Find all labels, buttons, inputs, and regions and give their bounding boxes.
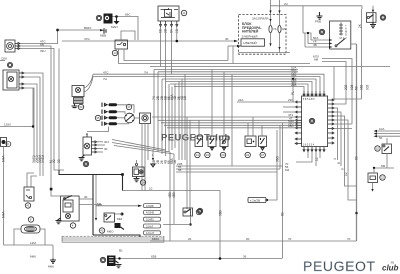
svg-text:962: 962 <box>360 84 364 90</box>
wire M4A left <box>3 147 5 246</box>
relay lamp comp 18 <box>133 160 145 177</box>
wire 47G long run to fuse box <box>62 40 234 42</box>
svg-text:926: 926 <box>350 84 354 90</box>
svg-text:70: 70 <box>288 237 292 241</box>
ground M66 <box>50 259 56 264</box>
svg-text:1/34-Л: 1/34-Л <box>146 225 153 228</box>
wire v356.5 main feed down <box>356 44 358 70</box>
svg-text:10A: 10A <box>379 127 384 131</box>
svg-text:ЗАСОРИЛИ: ЗАСОРИЛИ <box>252 17 268 21</box>
wire L to v358 <box>345 172 357 186</box>
wire v220 36B <box>219 191 221 259</box>
svg-text:14: 14 <box>196 153 200 157</box>
svg-text:19: 19 <box>206 153 210 157</box>
wires comp37 right stubs <box>97 141 103 143</box>
svg-text:M5B: M5B <box>100 34 106 38</box>
svg-text:20: 20 <box>221 153 225 157</box>
svg-text:12: 12 <box>381 16 385 20</box>
resistor comp 22 <box>368 173 378 183</box>
wire 4TC from motor to node <box>20 30 58 44</box>
svg-text:20: 20 <box>188 237 192 241</box>
vertical bundle v158 <box>157 72 159 152</box>
wire fusebox bottom rail <box>239 52 290 54</box>
svg-text:30: 30 <box>104 147 108 151</box>
U30 left pins <box>295 101 301 145</box>
svg-text:43: 43 <box>246 153 250 157</box>
circle ref 40 <box>83 161 88 166</box>
circle ref 19 <box>205 152 210 157</box>
wire PL drop to U30 <box>292 79 294 102</box>
connector list box 5 <box>144 231 161 235</box>
relay11 pin3 <box>171 21 173 27</box>
svg-text:22A: 22A <box>238 98 243 102</box>
svg-text:7A: 7A <box>273 27 277 31</box>
wire drop x303 <box>302 6 304 33</box>
wire band h84 <box>170 84 308 91</box>
svg-text:36B: 36B <box>218 210 222 216</box>
relay 41a <box>24 187 34 201</box>
ground MAN under comp3 <box>116 17 118 22</box>
node junction B66X <box>56 29 59 32</box>
wire v59 down <box>58 49 60 171</box>
fuse strip group left <box>102 103 117 126</box>
wire 2K vertical <box>361 9 363 99</box>
wire band h63 <box>150 63 233 65</box>
wire v43 to comp41 <box>42 157 44 176</box>
wire relay11 pin4 to 47G <box>176 27 178 41</box>
vertical bundle v162 <box>161 79 163 154</box>
svg-text:903: 903 <box>366 84 370 90</box>
dot on v358 <box>355 212 358 215</box>
comp22 wires <box>373 168 375 173</box>
wire MRN 20 line <box>150 240 357 242</box>
U30 right pins <box>328 99 334 144</box>
svg-text:1B: 1B <box>183 96 187 100</box>
wire v54 down <box>54 62 64 170</box>
wire right edge arrows M <box>377 135 400 137</box>
wire arrow into connector left <box>228 45 241 47</box>
svg-text:15: 15 <box>376 147 380 151</box>
svg-text:M6O: M6O <box>107 230 114 234</box>
vertical bundle v165 <box>165 70 167 156</box>
junction on h79 <box>292 78 294 80</box>
svg-text:32: 32 <box>52 159 56 163</box>
svg-text:126V: 126V <box>4 123 11 127</box>
circle ref 22 <box>380 175 385 180</box>
circle ref 4 <box>70 223 75 228</box>
svg-text:63B: 63B <box>151 255 156 259</box>
circle ref 20 <box>220 152 225 157</box>
wire B66X to ground M5B <box>58 29 100 31</box>
relay 16 <box>183 208 193 216</box>
wire h245 12M <box>4 244 54 246</box>
ground comp34 <box>72 104 78 108</box>
svg-text:13: 13 <box>113 51 117 55</box>
wire h130 from comp37 top <box>87 127 109 132</box>
wire v94 arrow <box>95 175 97 218</box>
svg-text:28D: 28D <box>288 124 294 128</box>
svg-text:M4A: M4A <box>2 155 6 162</box>
circle ref 47b <box>260 152 265 157</box>
wire U30 right pin L routes <box>333 67 335 101</box>
diag jog wires <box>112 140 166 151</box>
wire +4 into switch <box>308 43 332 45</box>
svg-text:M6: M6 <box>40 42 44 46</box>
circle ref 43 <box>245 152 250 157</box>
svg-text:20: 20 <box>246 237 250 241</box>
gray main v358 50 <box>356 70 358 242</box>
connector list box 3 <box>144 217 161 221</box>
wire v53 170M <box>52 245 54 259</box>
svg-text:12: 12 <box>315 157 319 161</box>
wire switch output <box>351 43 357 45</box>
wire band h79 <box>162 79 316 91</box>
svg-text:47G: 47G <box>84 37 90 41</box>
ground PM5 <box>315 12 323 24</box>
svg-text:16: 16 <box>197 210 201 214</box>
ignition lock group 42 <box>104 213 124 234</box>
sensor S3 <box>220 136 228 150</box>
wire 2U top run <box>271 5 363 7</box>
dark feed junction <box>59 170 123 175</box>
svg-text:36G: 36G <box>275 155 279 162</box>
ignition coil 7 <box>100 256 115 267</box>
svg-text:17: 17 <box>127 105 131 109</box>
ground under U12 <box>370 22 376 27</box>
svg-text:.ru: .ru <box>390 261 394 265</box>
wire h224 <box>163 224 191 226</box>
vertical bundle v185 <box>184 74 186 160</box>
wire h166 21B <box>176 165 283 167</box>
svg-text:C8U: C8U <box>1 57 7 61</box>
wire 50A into switch <box>311 39 332 41</box>
wire 33U from motor <box>20 49 54 63</box>
svg-text:1/34Л5: 1/34Л5 <box>146 219 154 222</box>
svg-text:35: 35 <box>96 116 100 120</box>
headlamp unit 6 <box>3 62 24 90</box>
circle ref 15 <box>375 146 380 151</box>
U30 top pins <box>303 91 325 96</box>
wire arc comp34 to band <box>84 74 93 88</box>
fuse F1 <box>269 0 277 46</box>
box 2a2B <box>248 198 266 203</box>
svg-text:10: 10 <box>149 187 153 191</box>
svg-text:47: 47 <box>261 153 265 157</box>
svg-text:7H: 7H <box>103 77 107 81</box>
svg-text:к 2а/2В: к 2а/2В <box>250 199 260 203</box>
svg-text:23B: 23B <box>291 83 296 87</box>
circle ref 47 <box>197 208 202 213</box>
heater comp 15 <box>382 144 392 154</box>
comp45 feeds <box>186 117 188 209</box>
wire 4B into switch <box>305 46 332 48</box>
motor M2 washer pump <box>5 40 20 52</box>
wire h107 to U30 <box>283 106 296 108</box>
svg-text:НИТЕЛЕЙ: НИТЕЛЕЙ <box>242 30 259 34</box>
wire feeders for switch <box>303 33 311 40</box>
relay 13 <box>112 40 127 56</box>
svg-text:41: 41 <box>26 204 30 208</box>
svg-text:23: 23 <box>57 159 61 163</box>
comp 9 charge <box>1 138 11 147</box>
lamp check unit U12 <box>367 13 377 23</box>
wire band h66b <box>150 66 390 68</box>
circle ref 18 <box>140 180 145 185</box>
circle ref 12 <box>380 15 385 20</box>
wire rotary to lamp box <box>134 117 139 119</box>
wire h127.8 long to U30 <box>167 127 296 129</box>
wire h117 long to U30 <box>152 116 296 118</box>
svg-text:33U: 33U <box>40 49 46 53</box>
circle ref 10 <box>319 29 324 34</box>
vertical bundle v169 <box>168 84 170 152</box>
svg-text:1/303В: 1/303В <box>146 205 154 208</box>
ground coil <box>116 261 122 268</box>
wire 63B h258 <box>116 258 283 260</box>
lamp comp 37 <box>83 134 97 155</box>
svg-text:2U: 2U <box>284 2 288 6</box>
svg-text:1/БЕЛЫЙ: 1/БЕЛЫЙ <box>243 41 257 45</box>
relay11 pin4 <box>176 21 178 27</box>
ground comb switch <box>56 218 62 224</box>
fuel pump comp 8 <box>21 217 40 233</box>
wire 126V from left <box>0 126 33 128</box>
wire right edge arrows 10A <box>377 130 400 132</box>
rotary light switch <box>125 113 135 123</box>
svg-text:40: 40 <box>84 162 88 166</box>
instrument lamp box <box>140 113 151 124</box>
comp15 wires <box>386 138 388 144</box>
circle ref 14 <box>195 152 200 157</box>
wires fuse strip to rotary switch <box>117 105 134 113</box>
vertical bundle v172 <box>171 87 173 151</box>
svg-text:30: 30 <box>84 195 88 199</box>
wire below U30 bottom pin runs <box>307 152 309 158</box>
wire right edge arrows 50 <box>377 133 400 135</box>
ground comp18 <box>134 177 140 182</box>
vertical bundle v179 <box>178 82 180 161</box>
junction square on v51 <box>50 188 53 191</box>
svg-text:30J: 30J <box>104 140 109 144</box>
svg-text:18: 18 <box>141 181 145 185</box>
wire headlamp pin1 <box>24 73 43 157</box>
wire band h86.5 <box>174 87 304 92</box>
svg-text:6: 6 <box>337 162 341 164</box>
svg-text:M4A: M4A <box>2 211 6 218</box>
svg-text:5 B 5 A B 5: 5 B 5 A B 5 <box>303 98 315 101</box>
connector list box 1 <box>144 204 161 208</box>
wire riser into connector <box>227 46 229 61</box>
fuse box connector 1-white <box>241 39 265 46</box>
wire h120.3 long to U30 <box>158 119 296 121</box>
svg-text:58: 58 <box>178 168 182 172</box>
circle ref 17 <box>126 104 131 109</box>
ignition switch U10 <box>330 21 351 49</box>
svg-text:70: 70 <box>347 237 351 241</box>
wire h122.8 long to U30 <box>161 122 296 124</box>
U30 bottom pins <box>303 147 325 152</box>
svg-text:PL: PL <box>291 91 295 95</box>
relay11 pin2 <box>165 21 167 27</box>
wire band h81.5 <box>166 82 312 92</box>
connector list box 4 <box>144 224 161 228</box>
svg-text:1/34-2Т: 1/34-2Т <box>146 232 155 235</box>
dark wire into strip <box>93 235 140 237</box>
svg-text:MRN: MRN <box>152 237 159 241</box>
svg-text:40: 40 <box>225 37 229 41</box>
ECU U30 <box>302 96 328 147</box>
wire relay11 pin3 down <box>171 27 173 74</box>
svg-text:PEUGEOT: PEUGEOT <box>303 258 376 274</box>
hatched connector strip <box>62 236 164 242</box>
relay U11 main relay <box>158 6 187 21</box>
svg-text:M66: M66 <box>30 255 36 259</box>
circle ref 41 <box>25 203 30 208</box>
wire v282 60 down <box>282 123 284 258</box>
wire band h61.5 M8 <box>322 62 346 100</box>
sensor S4 <box>245 136 256 147</box>
wire band h60 <box>150 60 228 62</box>
svg-text:MAN: MAN <box>111 25 118 29</box>
svg-text:club: club <box>382 264 399 273</box>
dimmer comp 34 <box>72 86 84 110</box>
svg-text:30: 30 <box>310 119 314 123</box>
wire M6B output <box>79 204 96 206</box>
svg-text:M4: M4 <box>285 168 289 172</box>
svg-text:22: 22 <box>381 176 385 180</box>
svg-text:36: 36 <box>243 255 247 259</box>
relay11 pin1 <box>160 21 162 27</box>
wire v277 to 2a2B <box>268 130 277 200</box>
wire band h66 <box>118 63 120 65</box>
svg-text:9: 9 <box>341 168 345 170</box>
wire v51 down <box>51 60 60 196</box>
svg-text:50: 50 <box>354 156 358 160</box>
label C8U left edge <box>0 60 5 62</box>
svg-text:4B: 4B <box>313 43 317 47</box>
sensor feed wires up <box>198 120 200 136</box>
svg-text:M6: M6 <box>381 164 385 168</box>
svg-text:34: 34 <box>79 105 83 109</box>
wire 2U into U12 <box>362 6 373 13</box>
svg-text:B1: B1 <box>119 249 123 253</box>
wires comb switch right <box>79 198 93 200</box>
svg-text:M 1 2: M 1 2 <box>340 36 347 40</box>
wire band h69 to IC <box>154 69 298 71</box>
vertical bundle v175 <box>174 84 176 148</box>
relay16 drop <box>190 216 192 225</box>
svg-text:PM5: PM5 <box>315 20 322 24</box>
wire relay13 down pins <box>119 49 151 64</box>
wire h172 58 <box>176 171 277 173</box>
svg-text:202: 202 <box>344 84 348 90</box>
vertical bundle v154 <box>153 70 155 151</box>
wire h112 to U30 <box>283 111 296 113</box>
fuse F2 <box>278 0 286 53</box>
wire band h71 <box>158 71 298 73</box>
svg-text:B66X: B66X <box>84 26 91 30</box>
svg-text:12M: 12M <box>30 241 36 245</box>
wire headlamp pin3 <box>24 84 37 157</box>
wire band h58.5 M70 <box>322 59 352 100</box>
pump wires <box>14 229 21 245</box>
svg-text:50: 50 <box>354 86 358 90</box>
svg-text:M6: M6 <box>97 202 101 206</box>
wire headlamp pin2 <box>24 77 40 157</box>
wire left bend to relay41 <box>27 173 34 187</box>
wire relay11 pin2 down <box>165 27 167 70</box>
svg-text:M66: M66 <box>48 265 54 269</box>
svg-text:42: 42 <box>100 229 104 233</box>
connector list box 2 <box>144 210 161 214</box>
svg-text:45B: 45B <box>172 192 176 198</box>
wire v280 <box>279 125 281 169</box>
wire h169 55 <box>176 168 280 170</box>
svg-text:3A: 3A <box>282 27 286 31</box>
wire headlamp pin4 <box>24 88 34 157</box>
svg-text:MM: MM <box>117 217 122 221</box>
svg-text:60: 60 <box>281 212 285 216</box>
sensor S5 <box>259 136 267 150</box>
vertical bundle v182 <box>181 79 183 160</box>
svg-text:50: 50 <box>379 136 383 140</box>
wire v352 continuation <box>351 99 353 124</box>
wire relay13 loop top <box>121 31 135 40</box>
wires v170 v174 <box>169 152 171 241</box>
wire relay11 pin1 down <box>160 27 162 67</box>
circle ref 42 <box>99 228 104 233</box>
wire h125.3 long to U30 <box>164 124 296 126</box>
wire h168 M6 <box>374 167 394 169</box>
svg-text:1 6 5 3 5 4: 1 6 5 3 5 4 <box>303 143 315 146</box>
svg-text:2/ЧЕРНЫЙ: 2/ЧЕРНЫЙ <box>242 35 258 39</box>
wire M6 arrow to list <box>96 205 141 207</box>
wire h190.5 10 <box>123 190 221 192</box>
combination switch assembly <box>61 196 80 222</box>
wire 69C from comp3 <box>113 17 139 41</box>
ground comp37 <box>79 155 85 161</box>
svg-text:69C: 69C <box>125 13 131 17</box>
ignition feed comp 3 <box>96 14 112 24</box>
circle ref 35 <box>95 115 100 120</box>
fuse box dashed boundary <box>239 15 286 55</box>
wire M6 from motor <box>20 46 51 60</box>
sensor S1 <box>195 136 203 147</box>
svg-text:4/32НВ: 4/32НВ <box>146 212 154 215</box>
svg-text:10: 10 <box>320 30 324 34</box>
wire h99 <box>333 98 362 100</box>
wires lamp box down <box>141 124 143 191</box>
pin c connector <box>152 150 154 158</box>
sensor S2 <box>208 136 216 150</box>
wire h102 22A to U30 <box>237 101 296 103</box>
circle ref 16 <box>196 209 201 214</box>
svg-text:11: 11 <box>182 11 185 15</box>
svg-text:M8: M8 <box>314 58 318 62</box>
svg-text:4: 4 <box>333 158 337 160</box>
